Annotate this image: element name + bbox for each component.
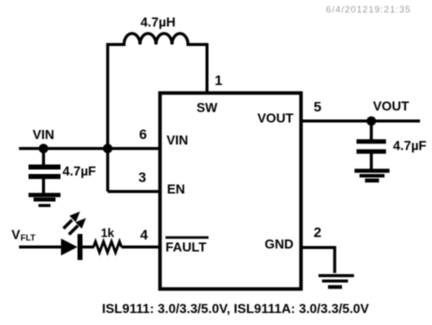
svg-text:6/4/201219:21:35: 6/4/201219:21:35 (326, 4, 411, 14)
svg-text:ISL9111: 3.0/3.3/5.0V, ISL9111: ISL9111: 3.0/3.3/5.0V, ISL9111A: 3.0/3.3… (102, 301, 369, 316)
svg-text:4.7µF: 4.7µF (63, 164, 97, 179)
svg-text:GND: GND (265, 236, 294, 251)
svg-text:VOUT: VOUT (257, 111, 293, 126)
svg-text:FAULT: FAULT (166, 240, 207, 255)
svg-text:2: 2 (314, 224, 322, 240)
svg-text:5: 5 (314, 99, 322, 115)
svg-text:1: 1 (215, 72, 223, 88)
svg-text:SW: SW (197, 100, 219, 115)
svg-text:4.7µH: 4.7µH (141, 15, 176, 30)
svg-text:4: 4 (140, 227, 148, 243)
svg-text:EN: EN (167, 181, 185, 196)
svg-text:4.7µF: 4.7µF (393, 138, 427, 153)
svg-text:6: 6 (139, 126, 147, 142)
svg-text:3: 3 (138, 169, 146, 185)
svg-text:VIN: VIN (167, 133, 189, 148)
svg-text:VOUT: VOUT (373, 99, 409, 114)
svg-text:V: V (12, 227, 21, 242)
svg-text:VIN: VIN (33, 127, 55, 142)
svg-text:FLT: FLT (21, 233, 37, 243)
svg-text:1k: 1k (101, 226, 115, 240)
